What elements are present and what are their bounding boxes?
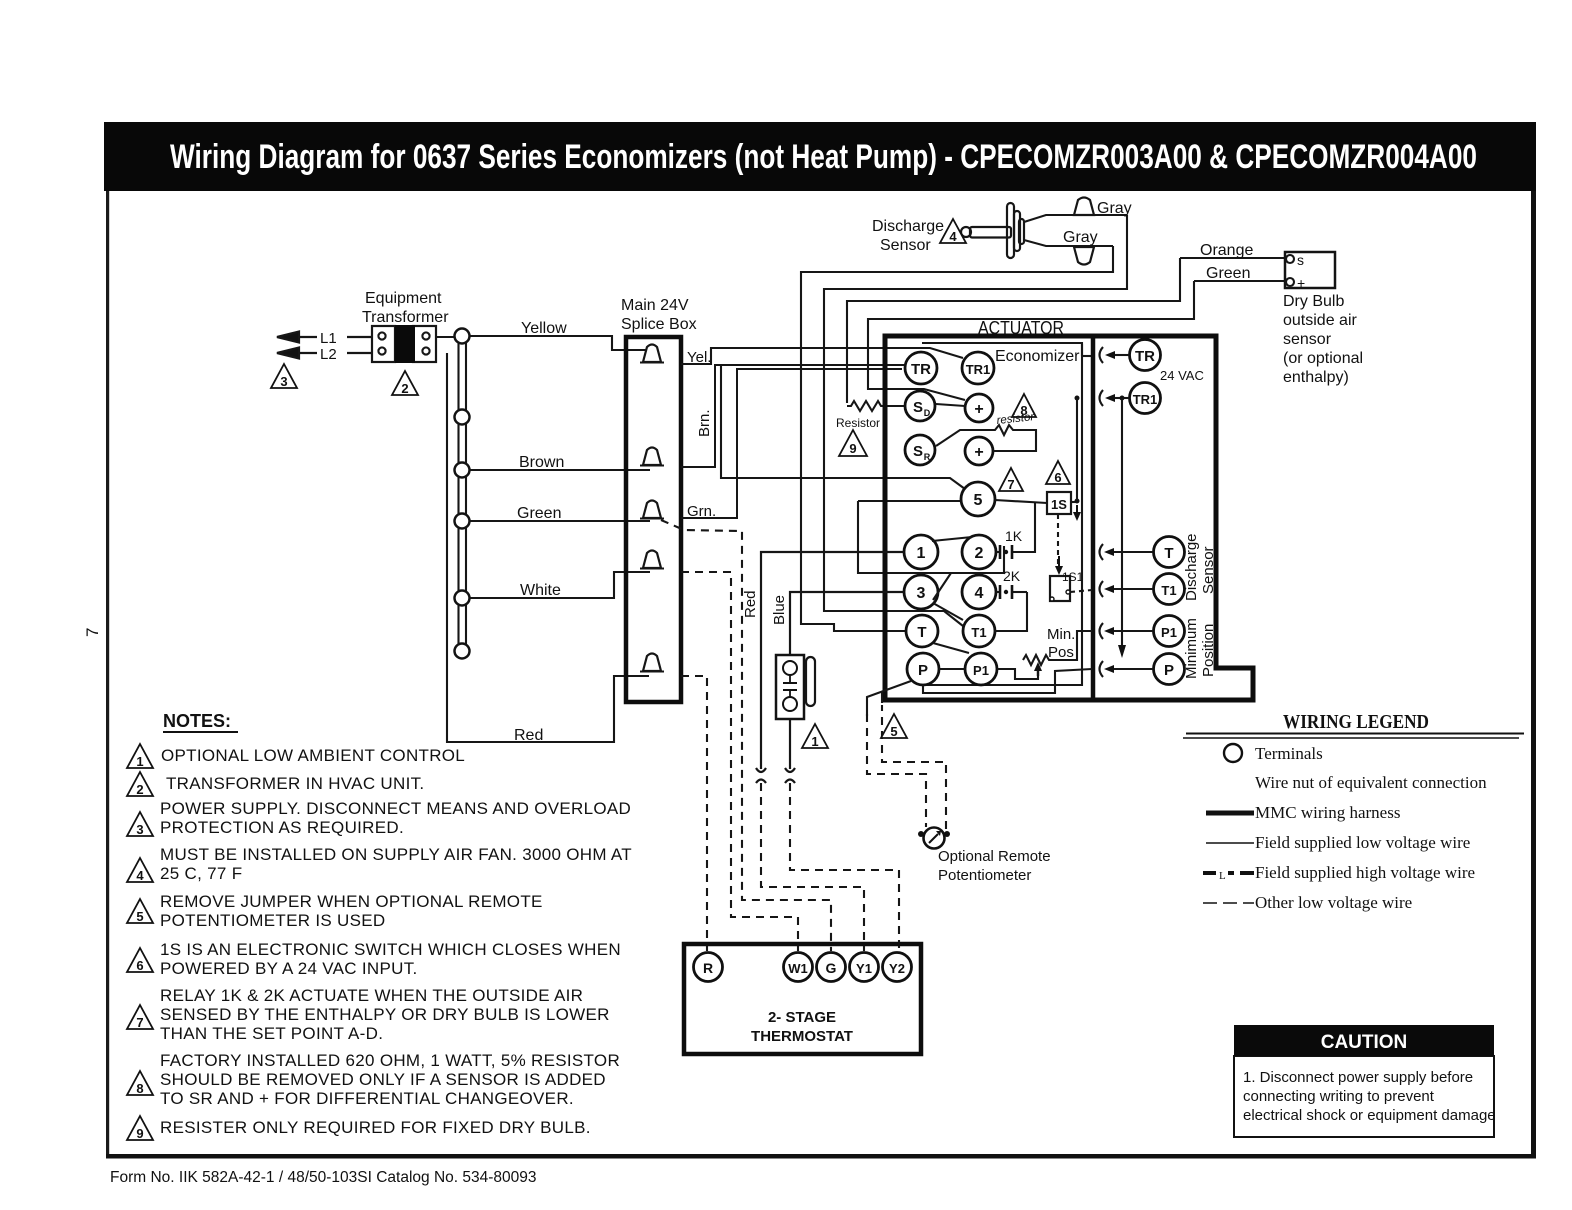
svg-text:R: R — [703, 960, 713, 976]
svg-text:Main 24V: Main 24V — [621, 297, 689, 314]
svg-text:TRANSFORMER IN HVAC UNIT.: TRANSFORMER IN HVAC UNIT. — [166, 774, 424, 793]
svg-text:Potentiometer: Potentiometer — [938, 867, 1031, 884]
svg-text:Gray: Gray — [1097, 200, 1132, 217]
svg-text:Green: Green — [517, 505, 561, 522]
svg-text:THAN THE SET POINT A-D.: THAN THE SET POINT A-D. — [160, 1024, 383, 1043]
svg-text:7: 7 — [83, 628, 102, 637]
svg-text:Yellow: Yellow — [521, 320, 567, 337]
svg-text:Red: Red — [742, 590, 759, 618]
svg-text:2: 2 — [401, 381, 408, 396]
svg-text:S: S — [913, 399, 923, 416]
svg-text:P1: P1 — [1161, 625, 1177, 640]
svg-text:RESISTER ONLY REQUIRED FOR FIX: RESISTER ONLY REQUIRED FOR FIXED DRY BUL… — [160, 1118, 591, 1137]
svg-text:T: T — [917, 624, 926, 641]
svg-text:D: D — [924, 408, 931, 418]
svg-text:Field supplied low voltage wir: Field supplied low voltage wire — [1255, 833, 1470, 852]
svg-text:3: 3 — [136, 822, 143, 837]
svg-text:P: P — [1164, 662, 1174, 679]
svg-text:3: 3 — [280, 374, 287, 389]
svg-text:s: s — [1297, 252, 1304, 268]
svg-text:L1: L1 — [320, 330, 337, 347]
svg-text:Position: Position — [1200, 624, 1217, 677]
svg-text:Sensor: Sensor — [1200, 546, 1217, 594]
svg-text:WIRING LEGEND: WIRING LEGEND — [1283, 711, 1429, 733]
svg-text:R: R — [924, 452, 931, 462]
svg-text:Splice Box: Splice Box — [621, 316, 697, 333]
svg-text:POWER SUPPLY. DISCONNECT MEANS: POWER SUPPLY. DISCONNECT MEANS AND OVERL… — [160, 799, 631, 818]
svg-text:1K: 1K — [1005, 528, 1023, 544]
svg-text:Orange: Orange — [1200, 242, 1253, 259]
svg-text:L2: L2 — [320, 346, 337, 363]
svg-text:6: 6 — [136, 958, 143, 973]
svg-text:24 VAC: 24 VAC — [1160, 368, 1204, 383]
svg-text:5: 5 — [974, 492, 983, 509]
svg-text:TR1: TR1 — [1133, 392, 1158, 407]
svg-text:THERMOSTAT: THERMOSTAT — [751, 1028, 853, 1045]
svg-text:sensor: sensor — [1283, 331, 1332, 348]
svg-text:electrical shock or equipment: electrical shock or equipment damage — [1243, 1107, 1496, 1124]
svg-text:Form No. IIK 582A-42-1 / 48/50: Form No. IIK 582A-42-1 / 48/50-103SI Cat… — [110, 1169, 537, 1186]
svg-text:TR: TR — [911, 361, 931, 378]
svg-text:Y2: Y2 — [889, 961, 905, 976]
svg-text:White: White — [520, 582, 561, 599]
svg-text:Optional Remote: Optional Remote — [938, 848, 1051, 865]
svg-text:5: 5 — [890, 724, 897, 739]
svg-text:9: 9 — [136, 1126, 143, 1141]
svg-text:Y1: Y1 — [856, 961, 872, 976]
svg-text:Pos: Pos — [1048, 644, 1074, 661]
svg-text:2- STAGE: 2- STAGE — [768, 1009, 836, 1026]
svg-text:Gray: Gray — [1063, 229, 1098, 246]
svg-text:resistor: resistor — [996, 411, 1036, 427]
svg-text:outside air: outside air — [1283, 312, 1357, 329]
svg-text:Discharge: Discharge — [1183, 533, 1200, 601]
svg-text:RELAY 1K & 2K ACTUATE WHEN THE: RELAY 1K & 2K ACTUATE WHEN THE OUTSIDE A… — [160, 986, 583, 1005]
svg-text:FACTORY INSTALLED 620 OHM, 1 W: FACTORY INSTALLED 620 OHM, 1 WATT, 5% RE… — [160, 1051, 620, 1070]
svg-text:8: 8 — [136, 1081, 143, 1096]
svg-text:Grn.: Grn. — [687, 503, 716, 520]
svg-text:Economizer: Economizer — [995, 348, 1080, 365]
svg-text:Field supplied high voltage wi: Field supplied high voltage wire — [1255, 863, 1475, 882]
svg-text:5: 5 — [136, 909, 143, 924]
svg-text:1S: 1S — [1051, 497, 1067, 512]
svg-text:TO SR AND + FOR DIFFERENTIAL C: TO SR AND + FOR DIFFERENTIAL CHANGEOVER. — [160, 1089, 574, 1108]
svg-text:CAUTION: CAUTION — [1321, 1032, 1408, 1053]
svg-text:3: 3 — [917, 585, 926, 602]
svg-text:Green: Green — [1206, 265, 1250, 282]
svg-text:L: L — [1219, 870, 1226, 882]
svg-text:Wiring Diagram for 0637 Series: Wiring Diagram for 0637 Series Economize… — [170, 138, 1477, 176]
svg-text:NOTES:: NOTES: — [163, 711, 231, 731]
svg-text:P: P — [918, 662, 928, 679]
svg-text:Red: Red — [514, 727, 543, 744]
svg-text:1: 1 — [917, 545, 926, 562]
svg-text:1S1: 1S1 — [1062, 570, 1084, 584]
svg-text:4: 4 — [136, 868, 144, 883]
svg-text:Other low voltage wire: Other low voltage wire — [1255, 893, 1412, 912]
svg-text:Min.: Min. — [1047, 626, 1075, 643]
svg-text:SENSED BY THE ENTHALPY OR DRY: SENSED BY THE ENTHALPY OR DRY BULB IS LO… — [160, 1005, 610, 1024]
svg-text:4: 4 — [949, 229, 957, 244]
svg-text:P1: P1 — [973, 663, 989, 678]
svg-text:TR: TR — [1135, 348, 1155, 365]
svg-text:Transformer: Transformer — [362, 309, 449, 326]
svg-text:Brn.: Brn. — [696, 409, 713, 437]
svg-text:REMOVE JUMPER WHEN OPTIONAL RE: REMOVE JUMPER WHEN OPTIONAL REMOTE — [160, 892, 543, 911]
svg-text:1: 1 — [136, 754, 143, 769]
svg-text:7: 7 — [1007, 477, 1014, 492]
svg-text:S: S — [913, 443, 923, 460]
svg-text:2: 2 — [136, 782, 143, 797]
svg-text:1. Disconnect power supply bef: 1. Disconnect power supply before — [1243, 1069, 1473, 1086]
svg-text:+: + — [1297, 275, 1305, 291]
svg-text:+: + — [974, 401, 983, 418]
svg-text:Blue: Blue — [771, 595, 788, 625]
svg-text:POTENTIOMETER IS USED: POTENTIOMETER IS USED — [160, 911, 385, 930]
svg-text:1S IS AN ELECTRONIC SWITCH WHI: 1S IS AN ELECTRONIC SWITCH WHICH CLOSES … — [160, 940, 621, 959]
svg-text:Resistor: Resistor — [836, 416, 880, 430]
svg-text:POWERED BY A 24 VAC INPUT.: POWERED BY A 24 VAC INPUT. — [160, 959, 418, 978]
svg-text:9: 9 — [849, 441, 856, 456]
svg-text:25 C, 77 F: 25 C, 77 F — [160, 864, 242, 883]
svg-text:T1: T1 — [1161, 583, 1176, 598]
svg-text:Wire nut of equivalent connect: Wire nut of equivalent connection — [1255, 773, 1487, 792]
svg-text:G: G — [826, 960, 837, 976]
svg-text:Brown: Brown — [519, 454, 564, 471]
svg-text:6: 6 — [1054, 470, 1061, 485]
svg-text:Yel.: Yel. — [687, 349, 711, 366]
svg-text:OPTIONAL LOW AMBIENT CONTROL: OPTIONAL LOW AMBIENT CONTROL — [161, 746, 465, 765]
svg-text:SHOULD BE REMOVED ONLY IF A SE: SHOULD BE REMOVED ONLY IF A SENSOR IS AD… — [160, 1070, 606, 1089]
svg-text:Terminals: Terminals — [1255, 744, 1323, 763]
svg-text:Minimum: Minimum — [1183, 618, 1200, 679]
svg-text:connecting writing to prevent: connecting writing to prevent — [1243, 1088, 1435, 1105]
svg-text:Dry Bulb: Dry Bulb — [1283, 293, 1344, 310]
svg-text:2: 2 — [975, 545, 984, 562]
svg-text:TR1: TR1 — [966, 362, 991, 377]
svg-text:7: 7 — [136, 1015, 143, 1030]
svg-text:T: T — [1164, 545, 1173, 562]
svg-text:MMC wiring harness: MMC wiring harness — [1255, 803, 1400, 822]
svg-text:MUST BE INSTALLED ON SUPPLY AI: MUST BE INSTALLED ON SUPPLY AIR FAN. 300… — [160, 845, 632, 864]
svg-text:PROTECTION AS REQUIRED.: PROTECTION AS REQUIRED. — [160, 818, 404, 837]
svg-text:T1: T1 — [971, 625, 986, 640]
svg-text:+: + — [974, 444, 983, 461]
svg-text:1: 1 — [811, 734, 818, 749]
svg-text:2K: 2K — [1003, 568, 1021, 584]
svg-text:W1: W1 — [788, 961, 808, 976]
svg-text:Discharge: Discharge — [872, 218, 944, 235]
svg-text:4: 4 — [975, 585, 984, 602]
svg-text:Sensor: Sensor — [880, 237, 931, 254]
svg-text:(or optional: (or optional — [1283, 350, 1363, 367]
svg-text:Equipment: Equipment — [365, 290, 442, 307]
svg-text:enthalpy): enthalpy) — [1283, 369, 1349, 386]
